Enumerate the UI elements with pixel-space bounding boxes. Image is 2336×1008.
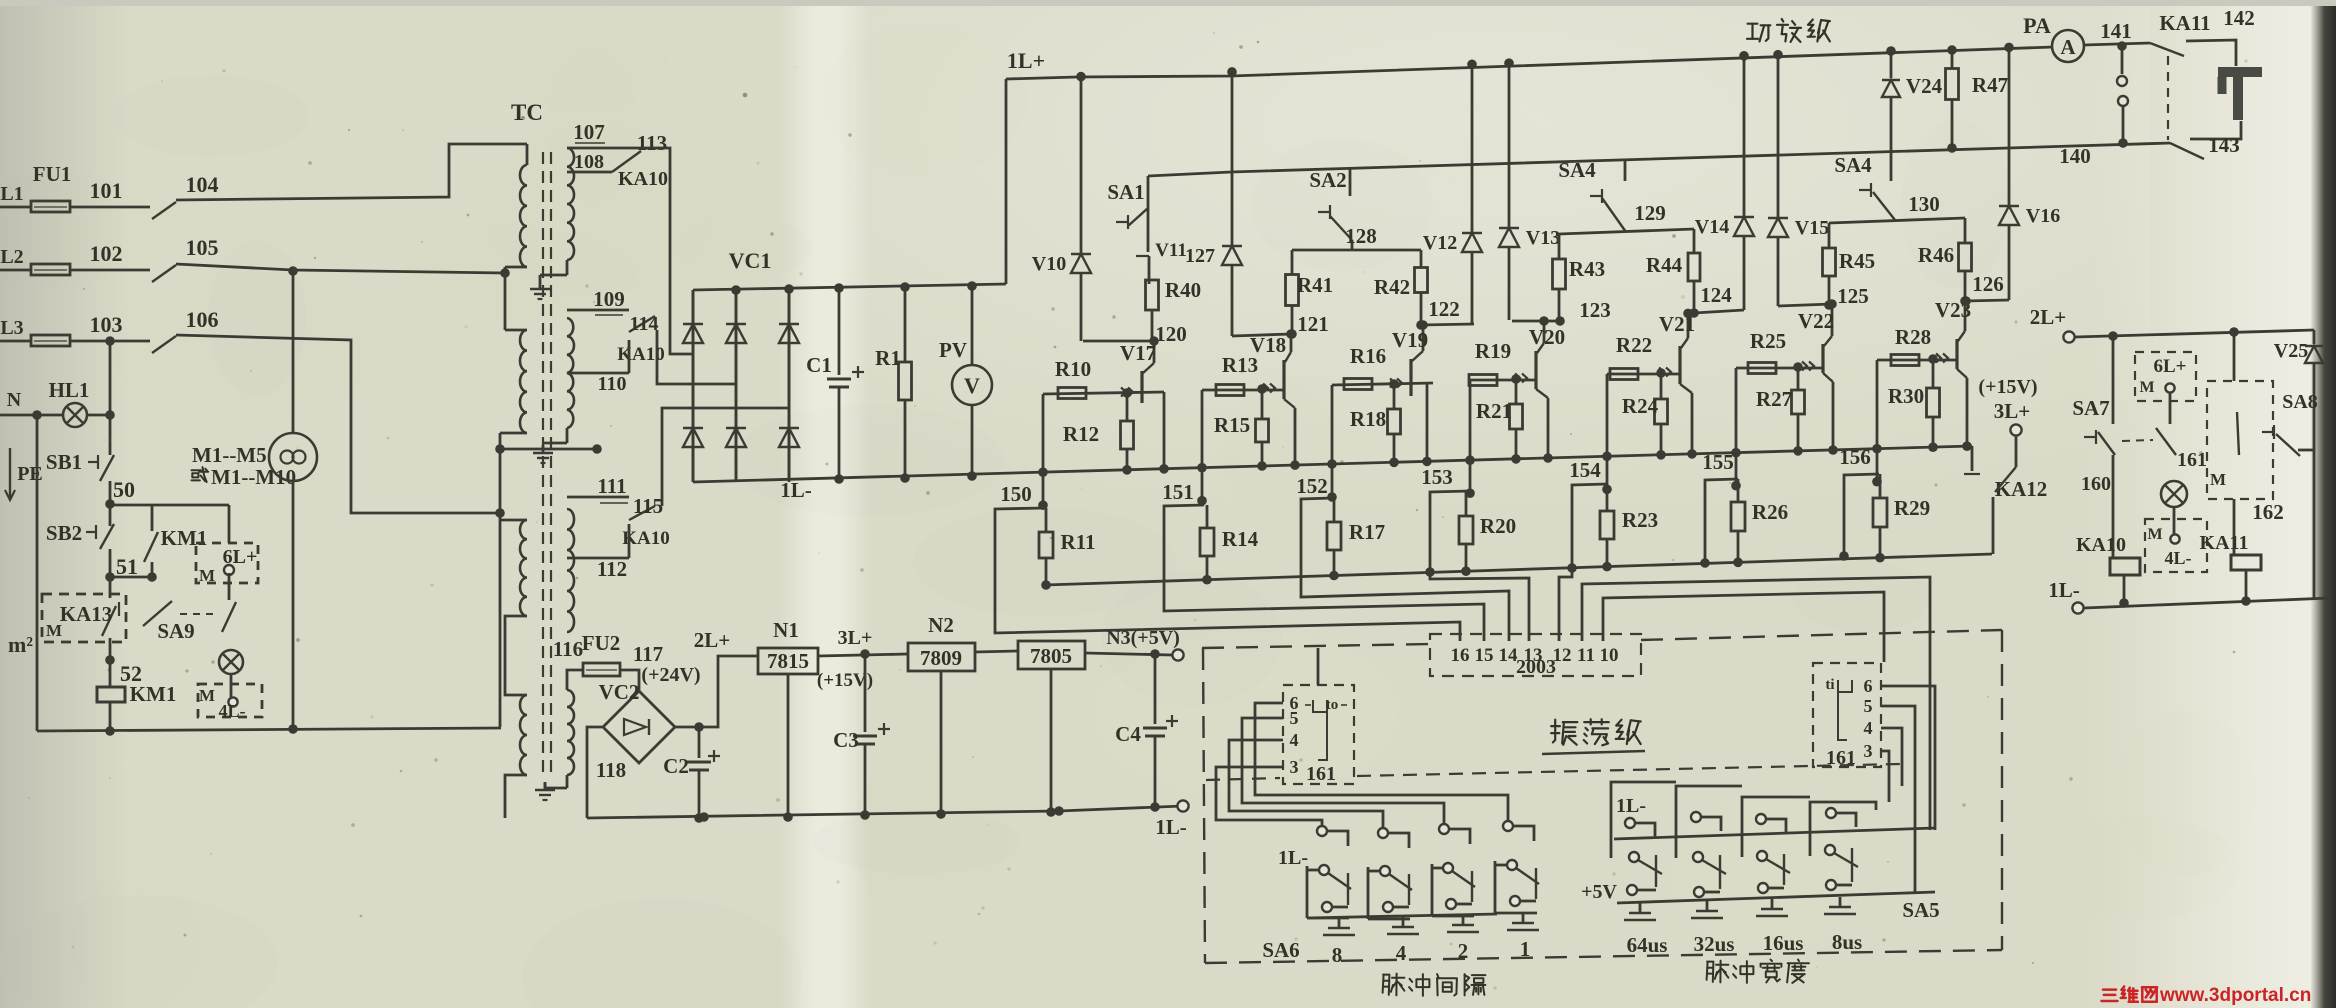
svg-text:8: 8 bbox=[1332, 943, 1343, 967]
svg-text:L1: L1 bbox=[0, 183, 23, 205]
svg-text:107: 107 bbox=[573, 120, 605, 144]
svg-text:102: 102 bbox=[90, 241, 123, 266]
svg-text:6L+: 6L+ bbox=[2154, 356, 2187, 377]
svg-text:N2: N2 bbox=[928, 613, 954, 637]
svg-text:114: 114 bbox=[630, 313, 659, 335]
svg-text:16us: 16us bbox=[1763, 931, 1804, 955]
svg-text:4L-: 4L- bbox=[2165, 548, 2192, 568]
svg-text:+5V: +5V bbox=[1581, 881, 1617, 903]
svg-text:m²: m² bbox=[8, 632, 33, 657]
svg-text:M: M bbox=[2139, 379, 2154, 396]
svg-text:A: A bbox=[2060, 35, 2076, 59]
svg-text:HL1: HL1 bbox=[49, 378, 90, 402]
svg-text:4: 4 bbox=[1864, 718, 1873, 738]
svg-text:112: 112 bbox=[597, 557, 627, 581]
svg-text:R27: R27 bbox=[1756, 387, 1792, 411]
svg-text:R46: R46 bbox=[1918, 243, 1954, 267]
svg-text:11: 11 bbox=[1577, 645, 1595, 666]
svg-text:ti: ti bbox=[1825, 677, 1834, 693]
svg-text:161: 161 bbox=[2177, 449, 2207, 471]
svg-text:5: 5 bbox=[1290, 708, 1299, 728]
svg-text:2L+: 2L+ bbox=[2030, 305, 2066, 329]
svg-text:15: 15 bbox=[1475, 645, 1494, 666]
svg-text:R1: R1 bbox=[875, 346, 901, 370]
svg-text:M1--M5: M1--M5 bbox=[192, 443, 267, 467]
svg-text:C2: C2 bbox=[663, 754, 689, 778]
svg-text:1L-: 1L- bbox=[1616, 795, 1646, 817]
svg-text:125: 125 bbox=[1837, 284, 1869, 308]
svg-text:V25: V25 bbox=[2274, 340, 2308, 362]
svg-text:R24: R24 bbox=[1622, 394, 1659, 418]
svg-text:PV: PV bbox=[939, 338, 967, 362]
svg-text:R43: R43 bbox=[1569, 257, 1605, 281]
svg-text:KA11: KA11 bbox=[2200, 532, 2249, 554]
svg-text:PA: PA bbox=[2023, 13, 2051, 38]
svg-text:161: 161 bbox=[1306, 763, 1336, 785]
svg-text:7805: 7805 bbox=[1030, 644, 1072, 668]
svg-text:4: 4 bbox=[1396, 941, 1407, 965]
svg-text:3L+: 3L+ bbox=[838, 627, 873, 649]
svg-text:R18: R18 bbox=[1350, 407, 1386, 431]
svg-text:V17: V17 bbox=[1120, 341, 1156, 365]
svg-text:SA4: SA4 bbox=[1834, 153, 1872, 177]
svg-text:R16: R16 bbox=[1350, 344, 1386, 368]
svg-text:V13: V13 bbox=[1526, 227, 1560, 249]
svg-text:51: 51 bbox=[116, 554, 138, 579]
svg-text:113: 113 bbox=[637, 131, 667, 155]
svg-text:KA13: KA13 bbox=[60, 602, 113, 626]
svg-text:R20: R20 bbox=[1480, 514, 1516, 538]
svg-text:R10: R10 bbox=[1055, 357, 1091, 381]
svg-text:1L-: 1L- bbox=[1155, 815, 1187, 839]
svg-text:KM1: KM1 bbox=[130, 682, 177, 706]
svg-text:SB2: SB2 bbox=[46, 521, 82, 545]
svg-text:2L+: 2L+ bbox=[694, 628, 730, 652]
svg-text:161: 161 bbox=[1826, 747, 1856, 769]
svg-text:R21: R21 bbox=[1476, 399, 1512, 423]
svg-text:127: 127 bbox=[1185, 245, 1215, 267]
svg-text:1: 1 bbox=[1520, 937, 1531, 961]
svg-text:R47: R47 bbox=[1972, 73, 2008, 97]
svg-text:143: 143 bbox=[2208, 133, 2240, 157]
svg-text:M: M bbox=[2147, 526, 2162, 543]
svg-text:SA2: SA2 bbox=[1309, 168, 1346, 192]
svg-text:120: 120 bbox=[1155, 322, 1187, 346]
svg-text:2003: 2003 bbox=[1516, 656, 1556, 678]
svg-text:VC2: VC2 bbox=[599, 680, 640, 704]
svg-text:KA10: KA10 bbox=[618, 168, 668, 190]
svg-text:FU1: FU1 bbox=[33, 162, 72, 186]
svg-text:R22: R22 bbox=[1616, 333, 1652, 357]
svg-text:10: 10 bbox=[1600, 645, 1619, 666]
svg-text:1L-: 1L- bbox=[780, 478, 812, 502]
svg-text:5: 5 bbox=[1864, 696, 1873, 716]
svg-text:155: 155 bbox=[1702, 450, 1734, 474]
svg-text:104: 104 bbox=[186, 172, 219, 197]
svg-text:121: 121 bbox=[1297, 312, 1329, 336]
svg-text:1L+: 1L+ bbox=[1007, 48, 1045, 73]
svg-text:110: 110 bbox=[598, 373, 627, 395]
svg-text:www.3dportal.cn: www.3dportal.cn bbox=[2159, 985, 2311, 1006]
svg-text:SA1: SA1 bbox=[1107, 180, 1144, 204]
svg-text:R30: R30 bbox=[1888, 384, 1924, 408]
svg-text:R40: R40 bbox=[1165, 278, 1201, 302]
svg-text:32us: 32us bbox=[1694, 932, 1735, 956]
svg-text:V15: V15 bbox=[1795, 217, 1829, 239]
svg-text:V: V bbox=[964, 373, 980, 398]
svg-text:V12: V12 bbox=[1423, 232, 1457, 254]
svg-text:162: 162 bbox=[2252, 500, 2284, 524]
svg-text:108: 108 bbox=[574, 151, 604, 173]
svg-text:(+24V): (+24V) bbox=[641, 664, 700, 686]
svg-text:C3: C3 bbox=[833, 728, 859, 752]
svg-text:R11: R11 bbox=[1060, 530, 1095, 554]
svg-text:8us: 8us bbox=[1832, 930, 1862, 954]
svg-text:150: 150 bbox=[1000, 482, 1032, 506]
svg-text:R44: R44 bbox=[1646, 253, 1683, 277]
svg-text:115: 115 bbox=[633, 494, 663, 518]
svg-text:R17: R17 bbox=[1349, 520, 1385, 544]
svg-text:154: 154 bbox=[1569, 458, 1601, 482]
svg-text:R19: R19 bbox=[1475, 339, 1511, 363]
svg-text:KA10: KA10 bbox=[2076, 534, 2126, 556]
svg-text:103: 103 bbox=[90, 312, 123, 337]
svg-text:C1: C1 bbox=[806, 353, 832, 377]
svg-text:111: 111 bbox=[597, 474, 626, 498]
svg-text:L3: L3 bbox=[0, 317, 23, 339]
svg-text:R42: R42 bbox=[1374, 275, 1410, 299]
svg-text:R25: R25 bbox=[1750, 329, 1786, 353]
svg-text:M: M bbox=[2210, 470, 2226, 489]
svg-text:64us: 64us bbox=[1627, 933, 1668, 957]
svg-text:3: 3 bbox=[1290, 757, 1299, 777]
svg-text:122: 122 bbox=[1428, 297, 1460, 321]
svg-text:V19: V19 bbox=[1392, 328, 1428, 352]
svg-text:117: 117 bbox=[633, 642, 663, 666]
svg-text:SA8: SA8 bbox=[2282, 391, 2318, 413]
svg-text:106: 106 bbox=[186, 307, 219, 332]
svg-text:128: 128 bbox=[1345, 224, 1377, 248]
svg-text:R28: R28 bbox=[1895, 325, 1931, 349]
svg-text:126: 126 bbox=[1972, 272, 2004, 296]
svg-text:SA4: SA4 bbox=[1558, 158, 1596, 182]
svg-text:151: 151 bbox=[1162, 480, 1194, 504]
svg-text:R29: R29 bbox=[1894, 496, 1930, 520]
svg-text:50: 50 bbox=[113, 477, 135, 502]
svg-text:R23: R23 bbox=[1622, 508, 1658, 532]
svg-text:V24: V24 bbox=[1906, 74, 1943, 98]
svg-text:to: to bbox=[1326, 697, 1339, 713]
svg-text:116: 116 bbox=[553, 637, 583, 661]
svg-text:FU2: FU2 bbox=[582, 631, 621, 655]
svg-text:129: 129 bbox=[1634, 201, 1666, 225]
svg-text:C4: C4 bbox=[1115, 722, 1141, 746]
svg-text:TC: TC bbox=[511, 100, 543, 125]
svg-text:153: 153 bbox=[1421, 465, 1453, 489]
svg-text:SA5: SA5 bbox=[1902, 898, 1939, 922]
svg-text:7809: 7809 bbox=[920, 646, 962, 670]
svg-text:M: M bbox=[199, 566, 215, 585]
svg-text:KM1: KM1 bbox=[161, 526, 208, 550]
svg-text:N1: N1 bbox=[773, 618, 799, 642]
svg-text:105: 105 bbox=[186, 235, 219, 260]
svg-text:156: 156 bbox=[1839, 445, 1871, 469]
svg-text:3: 3 bbox=[1864, 741, 1873, 761]
svg-text:V18: V18 bbox=[1250, 333, 1286, 357]
svg-text:3L+: 3L+ bbox=[1994, 399, 2030, 423]
svg-text:SA6: SA6 bbox=[1262, 938, 1299, 962]
svg-text:V10: V10 bbox=[1032, 253, 1066, 275]
svg-text:SA9: SA9 bbox=[157, 619, 194, 643]
svg-text:109: 109 bbox=[593, 287, 625, 311]
svg-text:142: 142 bbox=[2223, 6, 2255, 30]
svg-text:R45: R45 bbox=[1839, 249, 1875, 273]
svg-text:M1--M10: M1--M10 bbox=[211, 465, 296, 489]
svg-text:2: 2 bbox=[1458, 939, 1469, 963]
svg-text:L2: L2 bbox=[0, 246, 23, 268]
svg-text:SA7: SA7 bbox=[2072, 396, 2109, 420]
svg-text:R15: R15 bbox=[1214, 413, 1250, 437]
svg-text:N: N bbox=[7, 389, 22, 411]
svg-text:4L-: 4L- bbox=[219, 701, 246, 721]
svg-text:R41: R41 bbox=[1297, 273, 1333, 297]
svg-text:16: 16 bbox=[1451, 645, 1470, 666]
svg-text:KA12: KA12 bbox=[1995, 477, 2048, 501]
svg-text:V21: V21 bbox=[1659, 312, 1695, 336]
svg-text:124: 124 bbox=[1700, 283, 1732, 307]
svg-text:118: 118 bbox=[596, 758, 626, 782]
svg-text:1L-: 1L- bbox=[1278, 847, 1308, 869]
svg-text:123: 123 bbox=[1579, 298, 1611, 322]
svg-text:VC1: VC1 bbox=[729, 248, 772, 273]
svg-text:130: 130 bbox=[1908, 192, 1940, 216]
svg-text:(+15V): (+15V) bbox=[1978, 376, 2037, 398]
svg-text:PE: PE bbox=[17, 463, 43, 485]
svg-text:152: 152 bbox=[1296, 474, 1328, 498]
svg-text:160: 160 bbox=[2081, 473, 2111, 495]
svg-text:V16: V16 bbox=[2026, 205, 2060, 227]
svg-text:101: 101 bbox=[90, 178, 123, 203]
svg-text:V20: V20 bbox=[1529, 325, 1565, 349]
svg-text:V22: V22 bbox=[1798, 309, 1834, 333]
svg-text:4: 4 bbox=[1290, 730, 1299, 750]
svg-text:R14: R14 bbox=[1222, 527, 1259, 551]
svg-text:M: M bbox=[46, 621, 62, 640]
svg-text:M: M bbox=[199, 686, 215, 705]
svg-text:1L-: 1L- bbox=[2048, 578, 2080, 602]
svg-text:140: 140 bbox=[2059, 144, 2091, 168]
svg-text:KA11: KA11 bbox=[2159, 11, 2210, 35]
svg-text:V11: V11 bbox=[1155, 240, 1187, 261]
svg-text:R26: R26 bbox=[1752, 500, 1788, 524]
svg-text:7815: 7815 bbox=[767, 649, 809, 673]
svg-text:R12: R12 bbox=[1063, 422, 1099, 446]
svg-text:6: 6 bbox=[1864, 676, 1873, 696]
svg-text:SB1: SB1 bbox=[46, 450, 82, 474]
svg-text:141: 141 bbox=[2100, 19, 2132, 43]
svg-text:V14: V14 bbox=[1695, 216, 1729, 238]
